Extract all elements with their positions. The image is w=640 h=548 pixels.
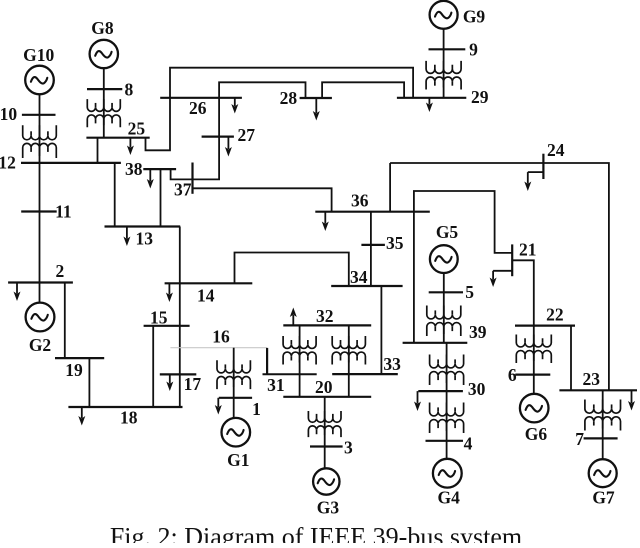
bus 6 [515,374,550,376]
bus 25 [86,137,149,139]
generator G9 [430,1,458,29]
wire 15-18 [152,326,154,407]
wire 20-3-G3 [324,397,326,469]
bus 15 [144,325,190,327]
wire 37-36 [193,188,332,211]
bus 8 [87,88,122,90]
svg-text:26: 26 [189,98,207,118]
bus 2 [8,281,73,283]
svg-text:7: 7 [575,429,584,449]
wire 13-14-15-17-18 [179,227,181,408]
bus 31 [266,348,268,374]
wire 36-34 [370,212,372,286]
svg-text:19: 19 [65,360,83,380]
wire 28-29 [322,82,404,98]
svg-text:35: 35 [386,233,404,253]
svg-text:G2: G2 [29,335,51,355]
wire 36 riser [389,163,391,212]
wire 2-19 [64,283,66,359]
bus 39 [403,342,468,344]
wire 36-24-23 [390,163,609,390]
svg-text:3: 3 [344,437,353,457]
transformer 22-6 [516,335,551,347]
bus 21 [511,244,513,276]
transformer 30-4 [430,403,464,416]
svg-text:17: 17 [184,374,202,394]
bus 26 [160,97,242,99]
svg-text:9: 9 [469,39,478,59]
transformer 20-3 [308,411,341,422]
svg-text:13: 13 [136,228,154,248]
bus 14 [165,282,253,284]
bus 38 [143,168,176,170]
svg-text:33: 33 [383,354,401,374]
svg-text:25: 25 [128,119,146,139]
load arrow bus 1 [217,398,219,407]
tertiary bar 31 [263,373,317,375]
svg-text:30: 30 [468,379,486,399]
svg-text:G8: G8 [91,18,114,38]
bus 11 [21,210,57,212]
transformer 9-29 [426,61,461,74]
svg-text:34: 34 [350,267,368,287]
bus 9 [429,48,466,50]
svg-text:16: 16 [212,327,230,347]
gen arrow bus 32 [292,315,294,325]
generator G4 [433,459,462,488]
bus 7 [584,437,618,439]
svg-text:21: 21 [519,240,537,260]
load arrow bus 30 [417,391,419,403]
bus 4 [426,440,464,442]
bus 30 [418,390,463,392]
svg-text:39: 39 [469,322,487,342]
wire 39-30-4-G4 [446,343,448,459]
transformer 5-39 [427,306,461,319]
svg-text:1: 1 [252,399,261,419]
wire G5-5-39 [443,273,445,343]
wire 38-27-28 [171,82,306,179]
bus 13 [105,225,181,227]
wire 21-22-G6 [512,260,534,394]
svg-text:32: 32 [316,306,334,326]
svg-text:G6: G6 [525,424,548,444]
bus 16 line [170,347,267,349]
svg-text:15: 15 [150,308,168,328]
svg-text:Fig. 2: Diagram of IEEE 39-bus: Fig. 2: Diagram of IEEE 39-bus system [110,523,522,544]
bus 37 [191,163,193,194]
bus 5 [429,291,463,293]
svg-text:4: 4 [464,434,473,454]
wire 12-13 [114,163,116,227]
svg-text:28: 28 [280,88,298,108]
generator G8 [90,40,118,68]
wire 22-23 [570,326,572,391]
bus 22 [515,325,575,327]
transformer 16-1 [217,360,250,373]
generator G10 [25,66,54,95]
transformer 23-7 [585,400,621,414]
load arrow bus 25 [129,138,131,148]
svg-text:11: 11 [55,201,72,221]
load arrow bus 24 [528,171,544,173]
generator G7 [589,459,617,487]
load arrow bus 13 [126,227,128,239]
load arrow bus 28 [315,98,317,113]
bus 17 [160,373,197,375]
svg-text:8: 8 [125,79,134,99]
transformer 32-33-20 right [332,336,365,348]
transformer 10-12 [23,125,57,140]
svg-text:29: 29 [471,87,489,107]
svg-text:18: 18 [120,408,138,428]
bus 36 [315,211,430,213]
svg-text:G5: G5 [436,222,459,242]
bus 28 [300,97,332,99]
generator G1 [222,418,251,447]
svg-text:G7: G7 [592,487,615,507]
svg-text:5: 5 [465,282,474,302]
transformer 39-30 [430,355,464,368]
bus 23 [559,389,637,391]
load arrow bus 14 [168,283,170,294]
svg-text:20: 20 [315,377,333,397]
svg-text:12: 12 [0,153,16,173]
bus 10 [22,114,56,116]
bus 19 [55,357,104,359]
wire G8 column [103,68,105,138]
load arrow bus 38 [149,169,151,181]
wire G9 column [443,29,445,98]
bus 3 [310,445,343,447]
svg-text:23: 23 [583,369,601,389]
bus 12 [21,162,121,164]
bus 18 [68,406,182,408]
load arrow bus 17 [169,374,171,383]
svg-text:G10: G10 [23,45,54,65]
wire left transformer 32-20 [299,325,301,396]
svg-text:36: 36 [351,191,369,211]
wire 14-34 [235,253,349,287]
wire 19-18 [88,358,90,407]
svg-text:G1: G1 [227,450,249,470]
wire 25-12 [97,138,99,163]
svg-text:37: 37 [174,179,192,199]
wire right transformer 32-20 [348,325,350,396]
svg-text:G4: G4 [438,488,461,508]
svg-text:10: 10 [0,104,17,124]
wire 25-26-29 [146,68,414,151]
load arrow bus 18 [81,407,83,418]
bus 29 [397,97,466,99]
bus 32 [283,324,371,326]
generator G5 [430,245,458,273]
svg-text:G3: G3 [317,498,340,518]
load arrow bus 23 [631,390,633,403]
generator G6 [520,394,549,423]
load arrow bus 26 [234,98,236,106]
wire 23-7-G7 [602,390,604,459]
svg-text:24: 24 [547,140,565,160]
svg-text:14: 14 [197,285,215,305]
bus 35 [361,244,385,246]
svg-text:2: 2 [56,261,65,281]
wire G10 column [39,94,41,302]
bus 1 [219,397,252,399]
load arrow bus 27 [227,137,229,149]
svg-text:27: 27 [238,125,256,145]
bus 33 [332,373,398,375]
load arrow bus 29 [428,98,430,105]
wire 39-21 [414,191,512,343]
generator G2 [26,303,55,332]
svg-text:38: 38 [125,159,143,179]
bus 20 [283,396,371,398]
wire 34-33 [380,286,382,374]
wire 16-1 [233,348,235,418]
svg-text:6: 6 [508,365,517,385]
svg-text:22: 22 [546,305,564,325]
svg-text:G9: G9 [463,6,486,26]
bus 27 [202,136,234,138]
load arrow bus 21 [493,270,512,272]
transformer 32-31-20 left [283,336,316,348]
transformer 8-25 [87,99,120,111]
svg-text:31: 31 [267,375,285,395]
generator G3 [313,468,339,494]
load arrow bus 36 [324,212,326,224]
load arrow bus 2 [16,283,18,294]
bus 24 [542,154,544,179]
bus 34 [331,285,402,287]
wire 38-13 [160,169,162,226]
